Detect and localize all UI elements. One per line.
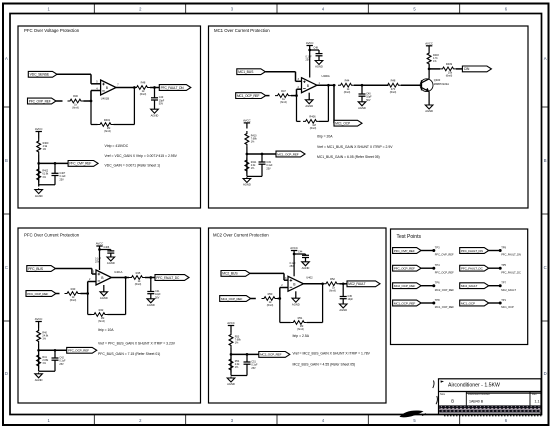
- svg-text:(6mil): (6mil): [390, 90, 397, 94]
- svg-text:PFC_BUS_GAIN = 7.15 (Refer: PFC_BUS_GAIN = 7.15 (Refer Sheet 01): [98, 352, 160, 356]
- svg-text:AVCC: AVCC: [306, 41, 314, 45]
- svg-text:AGND: AGND: [315, 65, 323, 69]
- svg-text:AGND: AGND: [425, 109, 433, 113]
- svg-text:MC1_OCP: MC1_OCP: [501, 305, 514, 309]
- svg-text:AGND: AGND: [339, 308, 347, 312]
- svg-text:C44: C44: [298, 250, 303, 253]
- svg-text:(6mil): (6mil): [70, 298, 77, 302]
- svg-text:MC1_OCP_REF: MC1_OCP_REF: [394, 301, 415, 305]
- svg-text:MC1_OCP: MC1_OCP: [335, 121, 350, 125]
- svg-text:R42: R42: [99, 308, 104, 312]
- svg-text:AGND: AGND: [147, 303, 155, 307]
- svg-text:(6mil): (6mil): [140, 92, 147, 96]
- svg-text:TP8: TP8: [435, 298, 440, 302]
- svg-text:Vref = VDC_GAIN X Vtrip = 0.00: Vref = VDC_GAIN X Vtrip = 0.0071*415 = 2…: [105, 154, 178, 158]
- svg-text:AGND: AGND: [358, 106, 366, 110]
- svg-text:PFC Over Current Protection: PFC Over Current Protection: [24, 233, 80, 238]
- svg-text:Itrip = 2.5A: Itrip = 2.5A: [293, 334, 310, 338]
- svg-text:B: B: [544, 158, 547, 163]
- svg-text:AGND: AGND: [35, 194, 43, 198]
- svg-text:R50: R50: [268, 292, 273, 296]
- svg-text:AGND: AGND: [100, 296, 108, 300]
- svg-text:AVCC: AVCC: [35, 317, 43, 321]
- svg-text:25V: 25V: [60, 178, 65, 181]
- svg-text:PFC_OVP_REF: PFC_OVP_REF: [394, 249, 415, 253]
- svg-text:50V: 50V: [155, 296, 160, 299]
- svg-text:25V: 25V: [59, 363, 64, 366]
- svg-text:MC1_OCP: MC1_OCP: [461, 301, 475, 305]
- svg-text:25V: 25V: [251, 367, 256, 370]
- svg-text:PFC Over Voltage Protection: PFC Over Voltage Protection: [24, 28, 80, 33]
- svg-text:Vref = PFC_BUS_GAIN X SHUNT X: Vref = PFC_BUS_GAIN X SHUNT X ITRIP = 3.…: [98, 342, 176, 346]
- svg-text:PFC_OCP_REF: PFC_OCP_REF: [435, 270, 454, 274]
- svg-text:R45: R45: [136, 271, 141, 275]
- svg-text:R44: R44: [345, 78, 350, 82]
- svg-text:10pF: 10pF: [348, 298, 354, 301]
- svg-text:PFC_OCP_REF: PFC_OCP_REF: [68, 349, 89, 353]
- svg-text:AGND: AGND: [227, 382, 235, 386]
- svg-text:MC2 Over Current Protection: MC2 Over Current Protection: [213, 233, 269, 238]
- svg-text:AVCC: AVCC: [290, 246, 298, 250]
- svg-text:U401B: U401B: [101, 97, 109, 101]
- svg-text:Vtrip = 415VDC: Vtrip = 415VDC: [105, 144, 129, 148]
- svg-text:R46: R46: [73, 94, 78, 98]
- svg-text:MC1 Over Current Protection: MC1 Over Current Protection: [214, 28, 270, 33]
- svg-text:Document Number: Document Number: [468, 392, 490, 396]
- svg-text:MC2_FAULT: MC2_FAULT: [501, 288, 516, 292]
- svg-text:AVCC: AVCC: [227, 321, 235, 325]
- svg-text:AGND: AGND: [292, 302, 300, 306]
- svg-text:AGND: AGND: [151, 113, 159, 117]
- svg-text:R409: R409: [446, 62, 453, 66]
- svg-text:PFC_FAULT_DN: PFC_FAULT_DN: [501, 253, 521, 257]
- svg-text:TP1: TP1: [501, 298, 506, 302]
- svg-text:VDC_GAIN = 0.0071 (Refer Sheet: VDC_GAIN = 0.0071 (Refer Sheet 1): [105, 163, 161, 167]
- svg-text:TP6: TP6: [435, 281, 440, 285]
- svg-text:MC1_BUS_GAIN = 6.05 (Refer S: MC1_BUS_GAIN = 6.05 (Refer Sheet 05): [317, 155, 380, 159]
- svg-text:C48: C48: [314, 47, 319, 50]
- svg-text:U401A: U401A: [114, 270, 122, 274]
- svg-text:(6mil): (6mil): [135, 282, 142, 286]
- svg-text:(6mil): (6mil): [310, 126, 317, 130]
- svg-text:MC2_BUS: MC2_BUS: [222, 272, 238, 276]
- svg-text:AVCC: AVCC: [96, 242, 104, 246]
- svg-text:C406: C406: [104, 246, 110, 249]
- svg-text:U402: U402: [306, 276, 313, 280]
- svg-text:50V: 50V: [159, 102, 164, 105]
- svg-text:25V: 25V: [290, 265, 295, 268]
- svg-text:AGND: AGND: [243, 183, 251, 187]
- svg-text:R48: R48: [141, 81, 146, 85]
- svg-text:PFC_OCP_REF: PFC_OCP_REF: [394, 266, 415, 270]
- svg-text:C: C: [5, 265, 8, 270]
- svg-text:R43: R43: [71, 287, 76, 291]
- svg-text:MC2_FAULT: MC2_FAULT: [461, 284, 478, 288]
- svg-text:B: B: [5, 158, 8, 163]
- svg-text:1.1: 1.1: [535, 400, 540, 404]
- svg-text:A: A: [544, 56, 547, 61]
- svg-text:R51: R51: [298, 316, 303, 320]
- svg-text:Itrip = 20A: Itrip = 20A: [317, 135, 333, 139]
- svg-text:MC1_OCP_REF: MC1_OCP_REF: [277, 152, 298, 156]
- svg-text:MC2_FAULT: MC2_FAULT: [348, 282, 365, 286]
- svg-text:MC2_OCP_REF: MC2_OCP_REF: [260, 353, 281, 357]
- svg-text:Itrip = 10A: Itrip = 10A: [98, 328, 114, 332]
- svg-text:R401: R401: [104, 118, 111, 122]
- svg-text:MMBT2222A: MMBT2222A: [434, 82, 449, 86]
- svg-text:25V: 25V: [306, 59, 311, 62]
- svg-text:PFC_FAULT_DC: PFC_FAULT_DC: [501, 270, 521, 274]
- svg-text:(6mil): (6mil): [344, 90, 351, 94]
- svg-text:B: B: [451, 399, 454, 404]
- svg-text:PFC_BUS: PFC_BUS: [28, 267, 44, 271]
- svg-text:(6mil): (6mil): [104, 129, 111, 133]
- svg-text:AVCC: AVCC: [243, 119, 251, 123]
- svg-text:TP5: TP5: [501, 263, 506, 267]
- svg-text:AVCC: AVCC: [35, 127, 43, 131]
- svg-text:TP4: TP4: [435, 263, 440, 267]
- svg-text:C: C: [544, 265, 547, 270]
- svg-text:PFC_FAULT_DC: PFC_FAULT_DC: [156, 276, 180, 280]
- svg-text:Vref = MC2_BUS_GAIN X SHUNT X: Vref = MC2_BUS_GAIN X SHUNT X ITRIP = 1.…: [293, 352, 371, 356]
- svg-text:Rev: Rev: [532, 392, 537, 396]
- svg-text:25V: 25V: [266, 167, 271, 170]
- svg-text:(6mil): (6mil): [446, 74, 453, 78]
- svg-text:(6mil): (6mil): [329, 289, 336, 293]
- svg-text:AGND: AGND: [302, 266, 310, 270]
- svg-text:AGND: AGND: [107, 261, 115, 265]
- svg-text:1AB40 B: 1AB40 B: [469, 400, 484, 404]
- svg-text:MC1_OCP_REF: MC1_OCP_REF: [435, 305, 455, 309]
- svg-text:D: D: [5, 371, 8, 376]
- svg-text:R47: R47: [281, 89, 286, 93]
- svg-text:50V: 50V: [366, 99, 371, 102]
- svg-text:(6mil): (6mil): [267, 303, 274, 307]
- svg-text:MC2_OCP_REF: MC2_OCP_REF: [435, 288, 455, 292]
- svg-text:MC1_OCP_REF: MC1_OCP_REF: [237, 94, 260, 98]
- svg-text:MC2_BUS_GAIN = 4.55 (Refer S: MC2_BUS_GAIN = 4.55 (Refer Sheet 05): [293, 362, 356, 366]
- svg-text:R48: R48: [391, 78, 396, 82]
- svg-text:MC2_OCP_REF: MC2_OCP_REF: [221, 297, 242, 301]
- svg-text:TP7: TP7: [501, 281, 506, 285]
- svg-text:TP9: TP9: [501, 245, 506, 249]
- svg-text:U400A: U400A: [322, 74, 330, 78]
- svg-text:TP3: TP3: [435, 245, 440, 249]
- svg-text:PFC_FAULT_DN: PFC_FAULT_DN: [461, 249, 483, 253]
- svg-text:(6mil): (6mil): [72, 106, 79, 110]
- svg-text:R406: R406: [309, 115, 316, 119]
- svg-text:25V: 25V: [95, 261, 100, 264]
- svg-text:PFC_OCP_REF: PFC_OCP_REF: [27, 292, 48, 296]
- svg-text:Airconditioner - 1.5KW: Airconditioner - 1.5KW: [448, 382, 500, 388]
- svg-text:R52: R52: [330, 277, 335, 281]
- svg-text:MC2_OCP_REF: MC2_OCP_REF: [394, 284, 415, 288]
- svg-text:VDC_SENSE: VDC_SENSE: [30, 73, 50, 77]
- svg-text:AGND: AGND: [305, 104, 313, 108]
- svg-text:MC1_BUS: MC1_BUS: [238, 70, 254, 74]
- svg-text:A: A: [5, 56, 8, 61]
- svg-text:PFC_FAULT_DC: PFC_FAULT_DC: [461, 266, 484, 270]
- svg-text:D: D: [544, 371, 547, 376]
- svg-text:Size: Size: [440, 392, 446, 396]
- svg-text:PFC_OVP_REF: PFC_OVP_REF: [29, 99, 51, 103]
- svg-text:(6mil): (6mil): [280, 100, 287, 104]
- svg-text:CIN: CIN: [464, 67, 470, 71]
- svg-text:(6mil): (6mil): [297, 327, 304, 331]
- svg-text:AGND: AGND: [35, 378, 43, 382]
- svg-text:PFC_OVP_REF: PFC_OVP_REF: [69, 162, 91, 166]
- svg-text:PFC_FAULT_DN: PFC_FAULT_DN: [161, 86, 185, 90]
- svg-text:Test Points: Test Points: [397, 234, 422, 240]
- svg-text:(6mil): (6mil): [98, 319, 105, 323]
- svg-text:Q400: Q400: [434, 78, 441, 82]
- svg-text:Vref = MC1_BUS_GAIN X SHUNT X: Vref = MC1_BUS_GAIN X SHUNT X ITRIP = 2.…: [317, 145, 393, 149]
- svg-text:AVCC: AVCC: [425, 42, 433, 46]
- svg-text:PFC_OVP_REF: PFC_OVP_REF: [435, 253, 454, 257]
